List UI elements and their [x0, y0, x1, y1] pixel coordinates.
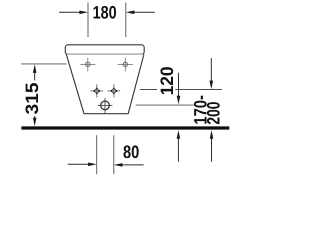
- fixing hole crosshair right: [118, 58, 133, 72]
- bidet body (trapezoid): [66, 54, 144, 113]
- svg-text:200: 200: [204, 102, 224, 125]
- dim 315: upper shaft + up arrow: [34, 70, 36, 81]
- tap hole crosshair right: [108, 84, 121, 97]
- svg-text:180: 180: [93, 2, 117, 22]
- dim 80: right arrow: [122, 164, 144, 166]
- svg-text:315: 315: [22, 83, 42, 115]
- dim 80: right extension line: [113, 135, 115, 174]
- drain hole crosshair: [98, 98, 113, 114]
- dim 120: tap reference line right segment: [175, 89, 222, 91]
- svg-text:120: 120: [157, 66, 177, 95]
- dim 170-200: top down arrow: [210, 58, 212, 84]
- dim 180: left arrow: [59, 11, 80, 13]
- dim 170-200: left up arrow below floor: [177, 137, 179, 162]
- dim 180: left extension line: [87, 3, 89, 38]
- dim 80: left arrow: [68, 163, 89, 165]
- dim 315: extension line: [21, 63, 67, 65]
- tap hole crosshair left: [91, 84, 104, 97]
- dim 170-200: right up arrow below floor: [211, 137, 213, 162]
- dim 80: left extension line: [96, 135, 98, 174]
- drain reference line: [136, 104, 194, 106]
- dim 120: shaft + down arrow: [178, 73, 180, 99]
- fixing hole crosshair left: [80, 58, 95, 72]
- dim 180: right extension line: [125, 3, 127, 38]
- dim 180: right arrow: [134, 11, 155, 13]
- svg-text:80: 80: [123, 142, 139, 162]
- bidet tank top (rounded rect): [65, 45, 144, 55]
- dim 315: lower shaft + down arrow: [34, 116, 36, 121]
- dim 120: tap reference line left segment: [140, 89, 157, 91]
- floor line: [21, 126, 229, 129]
